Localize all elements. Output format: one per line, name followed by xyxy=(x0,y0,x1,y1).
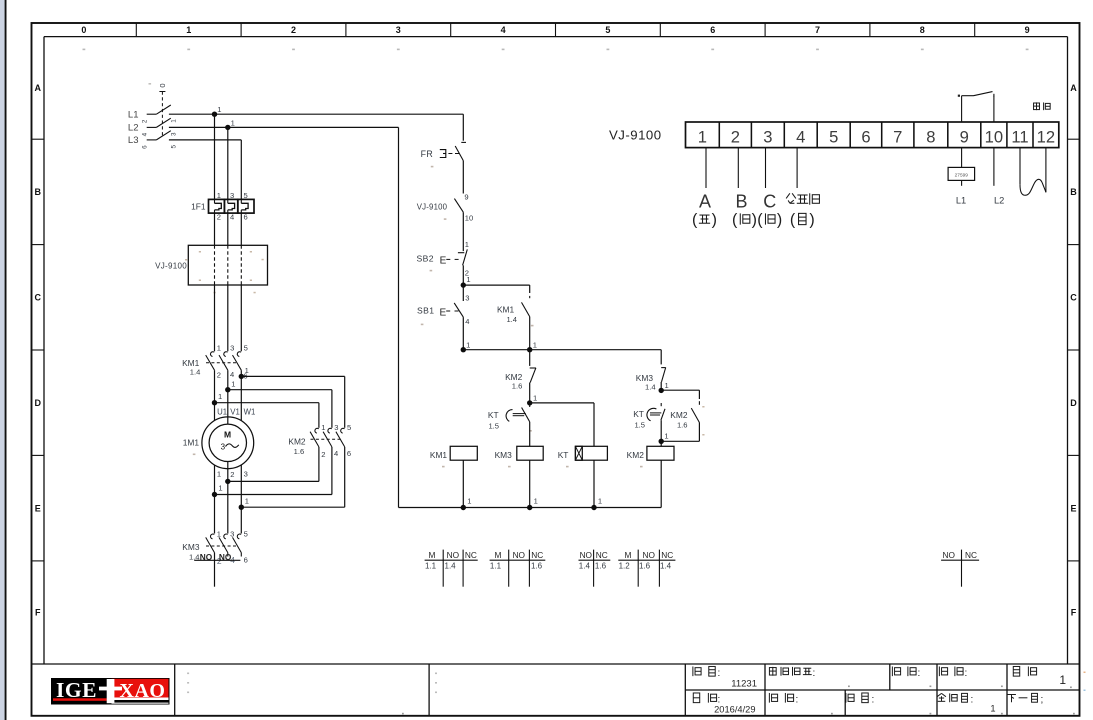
svg-text:M: M xyxy=(624,550,631,560)
svg-text:4: 4 xyxy=(142,132,149,136)
svg-text:6: 6 xyxy=(710,25,715,35)
svg-text:10: 10 xyxy=(465,214,473,223)
svg-text:3: 3 xyxy=(244,469,248,478)
svg-text:1.6: 1.6 xyxy=(639,561,651,570)
svg-text:1.6: 1.6 xyxy=(531,561,543,570)
svg-text:W1: W1 xyxy=(244,407,256,416)
svg-text:5: 5 xyxy=(170,144,177,148)
svg-text:9: 9 xyxy=(1025,25,1030,35)
svg-text:5: 5 xyxy=(347,423,351,432)
svg-text:KM3: KM3 xyxy=(636,373,654,383)
svg-text:U1: U1 xyxy=(217,407,227,416)
svg-text:27599: 27599 xyxy=(955,172,969,178)
svg-text:9: 9 xyxy=(960,127,969,146)
svg-text:E: E xyxy=(35,503,41,513)
svg-text:1: 1 xyxy=(218,392,222,401)
svg-text:C: C xyxy=(35,293,42,303)
svg-text:NC: NC xyxy=(531,550,543,560)
svg-text:1.4: 1.4 xyxy=(506,315,517,324)
svg-text:1.5: 1.5 xyxy=(634,421,645,430)
svg-text:1F1: 1F1 xyxy=(191,201,206,211)
svg-text:11: 11 xyxy=(1011,127,1028,146)
svg-text:6: 6 xyxy=(347,449,351,458)
svg-text:2: 2 xyxy=(142,119,149,123)
svg-text:6: 6 xyxy=(142,145,149,149)
svg-text:SB1: SB1 xyxy=(417,305,434,315)
svg-text:5: 5 xyxy=(244,530,248,539)
svg-text:5: 5 xyxy=(829,127,838,146)
svg-text:1.1: 1.1 xyxy=(425,561,437,570)
svg-text:1: 1 xyxy=(218,484,222,493)
svg-text:3: 3 xyxy=(230,191,234,200)
svg-text:FR: FR xyxy=(421,149,434,159)
svg-text:NO: NO xyxy=(942,550,955,560)
svg-text:3: 3 xyxy=(396,25,401,35)
svg-text:3: 3 xyxy=(763,127,772,146)
svg-text:VJ-9100: VJ-9100 xyxy=(609,128,662,143)
svg-text:1: 1 xyxy=(170,119,177,123)
svg-text:1: 1 xyxy=(534,496,538,505)
svg-text:1.4: 1.4 xyxy=(579,561,591,570)
svg-text:KM3: KM3 xyxy=(495,450,513,460)
svg-text:V1: V1 xyxy=(230,407,240,416)
svg-text:L1: L1 xyxy=(956,195,966,205)
svg-text:C: C xyxy=(763,192,776,212)
svg-text:1: 1 xyxy=(664,432,668,441)
svg-text:VJ-9100: VJ-9100 xyxy=(417,202,448,211)
svg-text:3: 3 xyxy=(170,132,177,136)
svg-text:A: A xyxy=(35,83,42,93)
svg-text:5: 5 xyxy=(605,25,610,35)
svg-text:NO: NO xyxy=(642,550,655,560)
svg-text:2: 2 xyxy=(321,450,325,459)
svg-text:1: 1 xyxy=(217,343,221,352)
svg-text:2: 2 xyxy=(291,25,296,35)
svg-text:1: 1 xyxy=(533,394,537,403)
svg-text:B: B xyxy=(35,187,42,197)
svg-text:1.4: 1.4 xyxy=(190,368,201,377)
svg-text:B: B xyxy=(735,192,747,212)
svg-text:1.1: 1.1 xyxy=(490,561,502,570)
svg-text:1: 1 xyxy=(217,105,221,114)
svg-text:NC: NC xyxy=(465,550,477,560)
svg-text:1: 1 xyxy=(467,496,471,505)
svg-text:3: 3 xyxy=(230,343,234,352)
svg-text:1.6: 1.6 xyxy=(595,561,607,570)
svg-text:NC: NC xyxy=(596,550,608,560)
svg-text:9: 9 xyxy=(464,192,468,201)
svg-text:B: B xyxy=(1070,187,1077,197)
svg-text:M: M xyxy=(494,550,501,560)
svg-text:E: E xyxy=(440,307,447,318)
svg-text:8: 8 xyxy=(926,127,935,146)
svg-text:7: 7 xyxy=(893,127,902,146)
svg-text:10: 10 xyxy=(985,127,1003,146)
svg-text:12: 12 xyxy=(1037,127,1055,146)
svg-text:VJ-9100: VJ-9100 xyxy=(155,261,187,270)
svg-text:3: 3 xyxy=(465,293,469,302)
svg-text::: : xyxy=(813,668,816,679)
svg-text:2: 2 xyxy=(731,127,740,146)
svg-text:NO: NO xyxy=(447,550,460,560)
svg-text:4: 4 xyxy=(501,25,506,35)
svg-text::: : xyxy=(796,695,799,706)
svg-text:KT: KT xyxy=(558,450,569,460)
svg-text::: : xyxy=(918,668,921,679)
svg-text:1: 1 xyxy=(698,127,707,146)
svg-text:1: 1 xyxy=(665,381,669,390)
svg-text:2: 2 xyxy=(217,213,221,222)
svg-text:4: 4 xyxy=(334,449,338,458)
svg-text:1: 1 xyxy=(245,496,249,505)
svg-text:NO: NO xyxy=(580,550,593,560)
svg-text:L2: L2 xyxy=(994,195,1004,205)
svg-text::: : xyxy=(718,668,721,679)
svg-text:5: 5 xyxy=(244,191,248,200)
svg-text:KM2: KM2 xyxy=(627,450,645,460)
svg-text:11231: 11231 xyxy=(731,679,757,690)
svg-text:A: A xyxy=(699,192,711,212)
svg-text:NC: NC xyxy=(661,550,673,560)
svg-text:KM3: KM3 xyxy=(182,542,200,552)
svg-text:4: 4 xyxy=(465,317,469,326)
svg-text:1: 1 xyxy=(186,25,191,35)
svg-text:1: 1 xyxy=(321,423,325,432)
svg-text:1: 1 xyxy=(990,704,995,714)
svg-text:L3: L3 xyxy=(128,135,139,146)
svg-text:KT: KT xyxy=(633,409,644,419)
svg-text:): ) xyxy=(777,212,782,229)
svg-text:): ) xyxy=(752,212,757,229)
svg-text:1: 1 xyxy=(1059,673,1066,687)
svg-text:D: D xyxy=(35,398,42,408)
svg-text:1.6: 1.6 xyxy=(294,447,305,456)
svg-text:1: 1 xyxy=(217,470,221,479)
svg-text:IGE: IGE xyxy=(56,678,97,702)
svg-text:F: F xyxy=(1071,608,1077,618)
svg-text:KM1: KM1 xyxy=(182,358,200,368)
svg-text:3: 3 xyxy=(221,442,226,451)
svg-text:4: 4 xyxy=(230,370,234,379)
svg-text:M: M xyxy=(224,429,231,439)
svg-text:1.6: 1.6 xyxy=(677,421,688,430)
svg-text:6: 6 xyxy=(244,556,248,565)
svg-text:E: E xyxy=(1070,503,1076,513)
svg-text:1: 1 xyxy=(245,366,249,375)
svg-text:E: E xyxy=(440,255,447,266)
svg-text:0: 0 xyxy=(158,83,167,87)
svg-text:KM1: KM1 xyxy=(430,450,448,460)
svg-text:1: 1 xyxy=(465,240,469,249)
svg-text:4: 4 xyxy=(796,127,805,146)
svg-text:1: 1 xyxy=(231,379,235,388)
svg-text:NC: NC xyxy=(965,550,977,560)
svg-text:XAO: XAO xyxy=(120,680,166,702)
svg-text:A: A xyxy=(1070,83,1077,93)
svg-text:6: 6 xyxy=(861,127,870,146)
svg-text:): ) xyxy=(712,212,717,229)
svg-text:3: 3 xyxy=(334,423,338,432)
svg-text:(: ( xyxy=(757,212,763,229)
svg-text:L1: L1 xyxy=(128,110,139,121)
svg-text:1: 1 xyxy=(466,275,470,284)
svg-text:F: F xyxy=(35,608,41,618)
svg-text:1: 1 xyxy=(231,118,235,127)
svg-text:2016/4/29: 2016/4/29 xyxy=(714,704,755,714)
svg-text:2: 2 xyxy=(217,370,221,379)
svg-text::: : xyxy=(971,695,974,706)
svg-text:NO: NO xyxy=(513,550,526,560)
svg-text:2: 2 xyxy=(230,470,234,479)
svg-text:KM2: KM2 xyxy=(288,436,306,446)
svg-text:1: 1 xyxy=(533,341,537,350)
svg-text:1.4: 1.4 xyxy=(445,561,457,570)
svg-text:1.4: 1.4 xyxy=(660,561,672,570)
svg-text:L2: L2 xyxy=(128,123,139,134)
svg-text:4: 4 xyxy=(230,213,234,222)
svg-text:SB2: SB2 xyxy=(417,254,434,264)
svg-text:1.2: 1.2 xyxy=(619,561,631,570)
svg-text:3: 3 xyxy=(230,530,234,539)
svg-text:0: 0 xyxy=(81,25,86,35)
svg-text:5: 5 xyxy=(244,343,248,352)
svg-text:1M1: 1M1 xyxy=(183,437,200,447)
svg-text:C: C xyxy=(1070,293,1077,303)
svg-text:KT: KT xyxy=(488,410,499,420)
svg-text:(: ( xyxy=(692,212,698,229)
svg-text:8: 8 xyxy=(920,25,925,35)
svg-text:KM2: KM2 xyxy=(670,410,688,420)
svg-text:1: 1 xyxy=(217,191,221,200)
svg-text:6: 6 xyxy=(244,213,248,222)
svg-text:): ) xyxy=(809,212,814,229)
svg-text:1: 1 xyxy=(466,341,470,350)
svg-text:1.6: 1.6 xyxy=(512,381,523,390)
svg-text:1.4: 1.4 xyxy=(645,383,656,392)
svg-text:;: ; xyxy=(1041,695,1044,706)
svg-text:M: M xyxy=(429,550,436,560)
svg-text:1.5: 1.5 xyxy=(488,422,499,431)
svg-text::: : xyxy=(965,668,968,679)
svg-text:1: 1 xyxy=(217,530,221,539)
svg-text:(: ( xyxy=(790,212,796,229)
svg-text:KM1: KM1 xyxy=(497,305,515,315)
svg-text:(: ( xyxy=(732,212,738,229)
svg-text:D: D xyxy=(1070,398,1077,408)
svg-text::: : xyxy=(872,695,875,706)
svg-text:1: 1 xyxy=(598,496,602,505)
svg-text:7: 7 xyxy=(815,25,820,35)
